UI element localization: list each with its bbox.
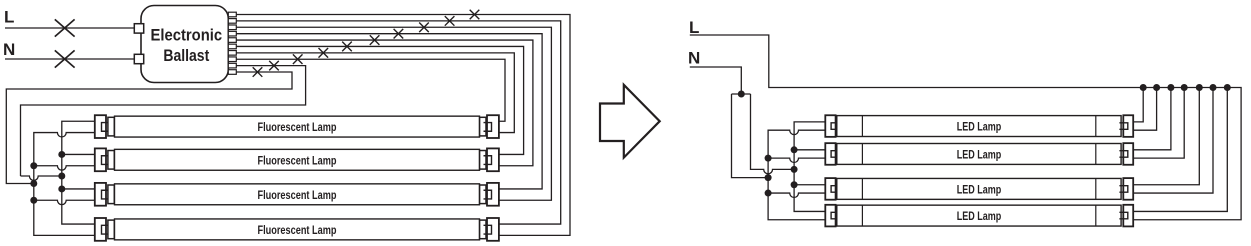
wire lamp3 upper pin to LED upper bus bbox=[794, 184, 825, 186]
ballast input pin N bbox=[134, 54, 143, 63]
wire N feed bbox=[690, 67, 742, 94]
ballast output wire 1 to lamp4 lower pin (right end) bbox=[236, 15, 570, 236]
top bus drop to lamp2 lower pin (right end) bbox=[1133, 88, 1184, 159]
wire lamp3 upper pin to upper bus bbox=[62, 188, 95, 190]
wire lamp2 lower pin to LED lower bus (hop) bbox=[768, 158, 825, 162]
wire L input (left diagram) bbox=[5, 27, 135, 29]
conversion arrow (fluorescent to LED) bbox=[600, 85, 660, 158]
cut X on ballast output wire 10 bbox=[253, 67, 263, 77]
svg-text:LED Lamp: LED Lamp bbox=[957, 183, 1002, 197]
ballast output wire 8 to lamp1 upper pin (right end) bbox=[236, 59, 505, 121]
junction dots on upper bus bbox=[58, 151, 65, 193]
top bus drop to lamp2 upper pin (right end) bbox=[1133, 88, 1171, 150]
top bus drop to lamp3 lower pin (right end) bbox=[1133, 88, 1213, 194]
LED lamp 1 bbox=[825, 115, 1133, 137]
ballast output wire 4 to lamp3 upper pin (right end) bbox=[236, 34, 542, 189]
N drop left to lower-pin bus bbox=[732, 94, 769, 178]
wire lamp2 upper pin to LED upper bus bbox=[794, 149, 825, 151]
junction dots on LED upper bus bbox=[791, 146, 798, 188]
LED upper-pin bus (left ends) bbox=[794, 122, 825, 212]
LED lamp 3 bbox=[825, 178, 1133, 200]
junction dot at N split bbox=[738, 91, 745, 98]
wire N input (left diagram) bbox=[5, 58, 135, 60]
cut X on ballast output wire 3 bbox=[419, 22, 429, 32]
top bus drop to lamp3 upper pin (right end) bbox=[1133, 88, 1199, 185]
N splitter bar bbox=[732, 93, 751, 95]
svg-text:LED Lamp: LED Lamp bbox=[957, 209, 1002, 223]
cut X on ballast output wire 2 bbox=[445, 16, 455, 26]
svg-text:L: L bbox=[4, 8, 14, 27]
svg-text:Fluorescent Lamp: Fluorescent Lamp bbox=[258, 188, 337, 202]
cut X on ballast output wire 9 bbox=[269, 61, 279, 71]
top bus drop to lamp4 upper pin (right end) bbox=[1133, 88, 1227, 212]
ballast output wire 5 to lamp2 lower pin (right end) bbox=[236, 40, 533, 166]
junction dots on LED lower bus bbox=[765, 155, 772, 197]
N drop right to upper-pin bus (hops over lower bus) bbox=[751, 94, 795, 174]
ballast output wire 10 wrap-around to left lower bus bbox=[6, 72, 292, 183]
junction dots on top L bus bbox=[1140, 84, 1231, 91]
left lower-pin bus (connects lower pins, hops over upper bus) bbox=[34, 133, 95, 236]
ballast output wire 6 to lamp2 upper pin (right end) bbox=[236, 46, 523, 154]
svg-text:LED Lamp: LED Lamp bbox=[957, 148, 1002, 162]
cut X on ballast output wire 4 bbox=[394, 29, 404, 39]
LED lower-pin bus (left ends, hops over upper bus) bbox=[768, 130, 825, 220]
svg-text:Electronic: Electronic bbox=[151, 26, 223, 45]
svg-text:LED Lamp: LED Lamp bbox=[957, 120, 1002, 134]
cut X on ballast output wire 7 bbox=[319, 48, 329, 58]
junction dots on lower bus bbox=[30, 162, 37, 204]
electronic ballast U1 body bbox=[141, 6, 228, 83]
ballast output wire 7 to lamp1 lower pin (right end) bbox=[236, 53, 514, 133]
disconnect X on wire N bbox=[55, 50, 75, 67]
ballast output wire 2 to lamp4 upper pin (right end) bbox=[236, 21, 560, 224]
svg-text:Fluorescent Lamp: Fluorescent Lamp bbox=[258, 223, 337, 237]
wire 9 junction link to upper bus (hops over lower bus) bbox=[21, 176, 62, 180]
fluorescent lamp 3 bbox=[95, 183, 499, 206]
ballast output pins 1-10 bbox=[228, 12, 236, 74]
svg-text:L: L bbox=[689, 18, 699, 37]
svg-text:Fluorescent Lamp: Fluorescent Lamp bbox=[258, 120, 337, 134]
wire L feed to top bus and lamp4 lower pin bbox=[690, 35, 1241, 220]
wire lamp3 lower pin to LED lower bus (hop) bbox=[768, 193, 825, 197]
wire lamp2 lower pin to lower bus (hop) bbox=[34, 166, 95, 170]
wire lamp2 upper pin to upper bus bbox=[62, 153, 95, 155]
ballast output wire 3 to lamp3 lower pin (right end) bbox=[236, 27, 551, 200]
ballast output wire 9 wrap-around to left upper bus bbox=[21, 66, 306, 176]
wire lamp3 lower pin to lower bus (hop) bbox=[34, 200, 95, 204]
left upper-pin bus (connects upper pins of lamps 1-4) bbox=[62, 121, 95, 224]
svg-text:Fluorescent Lamp: Fluorescent Lamp bbox=[258, 153, 337, 167]
fluorescent lamp 2 bbox=[95, 148, 499, 171]
svg-text:N: N bbox=[3, 40, 15, 59]
ballast input pin L bbox=[134, 24, 143, 33]
top bus drop to lamp1 upper pin (right end) bbox=[1133, 88, 1143, 122]
svg-text:Ballast: Ballast bbox=[163, 46, 209, 65]
fluorescent lamp 4 bbox=[95, 218, 499, 241]
cut X on ballast output wire 1 bbox=[470, 10, 480, 20]
cut X on ballast output wire 5 bbox=[370, 35, 380, 45]
cut X on ballast output wire 8 bbox=[293, 54, 303, 64]
cut X on ballast output wire 6 bbox=[342, 42, 352, 52]
top bus drop to lamp1 lower pin (right end) bbox=[1133, 88, 1156, 131]
LED lamp 2 bbox=[825, 143, 1133, 165]
fluorescent lamp 1 bbox=[95, 115, 499, 138]
disconnect X on wire L bbox=[55, 19, 75, 36]
svg-text:N: N bbox=[688, 49, 700, 68]
LED lamp 4 bbox=[825, 205, 1133, 227]
